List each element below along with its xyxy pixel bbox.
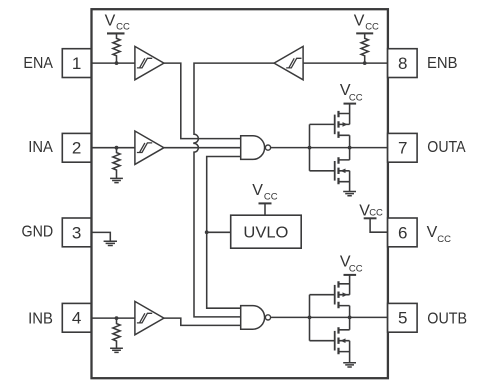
- svg-text:CC: CC: [116, 22, 130, 33]
- svg-text:CC: CC: [349, 92, 363, 103]
- svg-text:V: V: [105, 12, 116, 29]
- svg-text:5: 5: [398, 309, 407, 328]
- svg-text:INA: INA: [28, 139, 53, 156]
- svg-text:4: 4: [72, 309, 81, 328]
- svg-text:V: V: [354, 12, 365, 29]
- svg-text:CC: CC: [437, 234, 451, 245]
- svg-text:ENA: ENA: [23, 55, 53, 72]
- svg-text:INB: INB: [28, 311, 53, 328]
- svg-text:GND: GND: [22, 223, 54, 240]
- svg-text:CC: CC: [264, 192, 278, 203]
- svg-text:CC: CC: [365, 22, 379, 33]
- svg-text:V: V: [252, 182, 263, 199]
- svg-text:1: 1: [72, 54, 81, 73]
- svg-text:OUTA: OUTA: [427, 139, 466, 156]
- svg-text:V: V: [427, 224, 438, 241]
- svg-text:8: 8: [398, 54, 407, 73]
- svg-text:2: 2: [72, 139, 81, 158]
- svg-text:3: 3: [72, 223, 81, 242]
- svg-text:UVLO: UVLO: [243, 224, 288, 241]
- svg-text:7: 7: [398, 139, 407, 158]
- svg-text:CC: CC: [349, 264, 363, 275]
- svg-text:6: 6: [398, 223, 407, 242]
- svg-text:CC: CC: [369, 207, 383, 218]
- svg-text:OUTB: OUTB: [427, 311, 467, 328]
- svg-text:ENB: ENB: [427, 55, 458, 72]
